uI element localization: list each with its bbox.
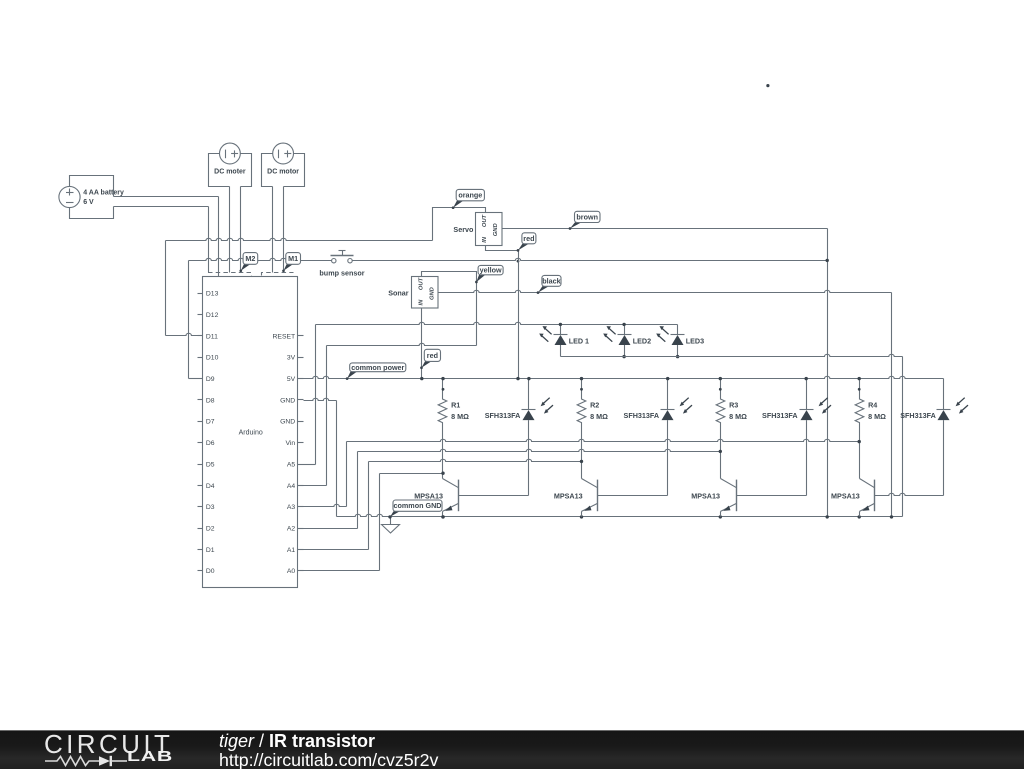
svg-text:common power: common power [351,363,404,372]
svg-text:GND: GND [280,419,295,426]
ground symbol [382,517,400,534]
wire LED return vertical [902,357,904,517]
wire motor2 lead B [283,187,285,273]
pin A2 stub [298,528,304,530]
junction node dot [580,388,583,391]
junction 5V rail [580,377,583,380]
wire GND riser down [336,401,338,517]
svg-text:A3: A3 [287,504,296,511]
wire row C (A1 to R2) [369,459,582,461]
svg-text:orange: orange [458,191,482,200]
photodiode SFH313FA #4 [900,379,968,496]
photodiode SFH313FA #3 [762,379,831,496]
wire A0 to riser [304,570,380,572]
junction black/bottom rail [890,515,893,518]
LED LED 1 [539,325,589,357]
junction 5V rail SFH [666,377,669,380]
flag yellow [475,265,503,283]
pin D7 stub [198,421,203,423]
junction LED1 top [559,323,562,326]
pin GND stub [298,399,304,401]
flag black [537,275,561,294]
pin D3 stub [198,506,203,508]
transistor Q4 MPSA13 [860,479,875,517]
svg-text:SFH313FA: SFH313FA [624,411,660,420]
junction brown/ground wire [826,259,829,262]
junction ground stem [388,515,391,518]
wire to D11 pin [166,333,198,335]
svg-text:RESET: RESET [273,333,296,340]
svg-text:R4: R4 [868,400,877,409]
CircuitLab logo [0,731,260,769]
pin A1 stub [298,549,304,551]
svg-text:A1: A1 [287,547,296,554]
wire A4 riser [326,346,328,486]
pin 3V stub [298,357,304,359]
svg-text:D0: D0 [206,568,215,575]
footer title [219,731,438,771]
junction brown/bottom rail [826,515,829,518]
photodiode SFH313FA #1 [485,379,553,496]
svg-text:M1: M1 [288,254,298,263]
pin Vin stub [298,442,304,444]
junction 5V rail SFH [805,377,808,380]
svg-text:SFH313FA: SFH313FA [900,411,936,420]
svg-text:LED2: LED2 [633,336,651,345]
transistor Q3 MPSA13 [721,479,807,517]
svg-text:SFH313FA: SFH313FA [762,411,798,420]
svg-text:4 AA battery: 4 AA battery [83,189,124,196]
wire orange net riser to D11 [165,241,167,336]
pin D0 stub [198,570,203,572]
pin D4 stub [198,485,203,487]
svg-text:OUT: OUT [482,214,488,227]
junction analog row [441,472,444,475]
wire battery positive lead [70,176,114,197]
motor DC motor (M1) [262,143,305,186]
wire row D (A0 to R1) [380,473,443,475]
svg-text:LED3: LED3 [686,336,704,345]
pin A0 stub [298,570,304,572]
svg-text:D6: D6 [206,440,215,447]
wire A2 riser [357,452,359,529]
junction 5V rail [719,377,722,380]
wire A1 to riser [304,549,369,551]
svg-text:Servo: Servo [453,225,474,234]
junction Q1 emitter [441,515,444,518]
LED LED2 [603,325,651,357]
svg-text:Arduino: Arduino [239,429,263,436]
wire row A (A3 to R4) [347,439,860,441]
junction LED2 top [622,323,625,326]
wire servo IN drop [486,246,519,251]
svg-text:yellow: yellow [480,266,502,275]
flag common GND [389,500,442,518]
svg-text:MPSA13: MPSA13 [691,491,720,500]
svg-text:8 MΩ: 8 MΩ [868,412,886,421]
junction 5V rail SFH [527,377,530,380]
wire A5 riser [315,325,317,465]
junction ground rail [580,515,583,518]
svg-text:D3: D3 [206,504,215,511]
svg-text:Vin: Vin [285,440,295,447]
flag M2 [239,253,257,273]
dashed motor connector right [262,273,294,276]
flag M1 [282,253,300,273]
battery V1 4 AA 6V [59,186,80,207]
svg-text:D12: D12 [206,312,219,319]
svg-text:GND: GND [430,286,436,300]
junction LED3 bottom [676,355,679,358]
junction analog row [580,460,583,463]
svg-text:D1: D1 [206,547,215,554]
resistor R4 8 MOhm [855,379,886,479]
wire battery+ horizontal [114,196,219,198]
pin D12 stub [198,314,203,316]
motor DC moter (M2) [209,143,252,186]
wire 5V rail corner to SFH4 [943,378,945,380]
junction 5V rail [858,377,861,380]
pin D5 stub [198,464,203,466]
wire A4 to yellow net [327,343,477,345]
wire A3 to riser [304,504,347,506]
wire sonar OUT yellow net [422,272,477,346]
junction node dot [442,388,445,391]
flag common power [346,363,406,380]
svg-text:red: red [523,234,534,243]
wire LED bottom rail [561,354,903,356]
pin A5 stub [298,464,304,466]
junction ground rail [441,515,444,518]
wire motor2 lead A [272,187,274,273]
svg-text:DC motor: DC motor [267,168,299,175]
svg-text:brown: brown [576,213,598,222]
svg-text:OUT: OUT [419,277,425,290]
wire motor1 lead B [240,187,242,273]
svg-text:MPSA13: MPSA13 [831,491,860,500]
pin D2 stub [198,528,203,530]
svg-text:8 MΩ: 8 MΩ [729,412,747,421]
resistor R3 8 MOhm [716,379,747,479]
pin D6 stub [198,442,203,444]
svg-text:A5: A5 [287,461,296,468]
wire row B (A2 to R3) [358,449,721,451]
junction under bump [517,260,520,263]
IC Sonar box [412,277,439,309]
IC Arduino box [203,277,298,588]
svg-text:D10: D10 [206,355,219,362]
transistor Q1 MPSA13 [443,479,529,517]
pin A3 stub [298,506,304,508]
flag orange [452,189,485,209]
svg-text:common GND: common GND [394,501,442,510]
svg-text:D5: D5 [206,461,215,468]
wire A4 to riser [304,485,327,487]
junction node dot [719,388,722,391]
junction ground rail [858,515,861,518]
svg-text:LED 1: LED 1 [569,336,589,345]
wire A1 riser [368,462,370,550]
photodiode SFH313FA #2 [624,379,692,496]
wire battery negative lead [70,207,114,219]
svg-text:IN: IN [482,236,488,243]
wire A3 riser [346,442,348,507]
transistor Q2 MPSA13 [582,479,668,517]
junction analog row [719,450,722,453]
svg-text:M2: M2 [245,254,255,263]
wire brown net horizontal [503,228,828,230]
svg-text:R1: R1 [451,400,460,409]
pin GND stub [298,421,304,423]
svg-text:3V: 3V [287,355,296,362]
pin D13 stub [198,293,203,295]
wire GND pin to riser [304,398,337,400]
wire A0 riser [379,474,381,571]
pin D11 stub [198,335,203,337]
wire orange net horizontal [166,238,433,240]
pin D10 stub [198,357,203,359]
wire 5V common power rail [304,376,944,378]
wire ground net riser to D9 [188,261,190,379]
svg-text:D7: D7 [206,419,215,426]
wire common ground bottom rail [337,514,903,516]
svg-text:R2: R2 [590,400,599,409]
svg-text:8 MΩ: 8 MΩ [451,412,469,421]
junction node dot [858,388,861,391]
svg-text:IN: IN [419,299,425,306]
flag red sonar [420,349,440,369]
svg-text:D9: D9 [206,376,215,383]
wire A2 to riser [304,528,358,530]
junction analog row [858,440,861,443]
resistor R1 8 MOhm [438,379,469,479]
wire servo IN riser to 5V rail [518,251,520,379]
svg-text:D13: D13 [206,291,219,298]
junction LED2 bottom [622,355,625,358]
svg-text:R3: R3 [729,400,738,409]
LED LED3 [656,325,704,357]
svg-text:SFH313FA: SFH313FA [485,411,521,420]
svg-text:D11: D11 [206,333,218,340]
wire brown net vertical [827,229,829,517]
wire battery- horizontal [114,206,209,208]
svg-text:D2: D2 [206,525,215,532]
wire black net horizontal (sonar GND) [438,290,892,292]
svg-text:red: red [427,351,438,360]
junction ground rail [719,515,722,518]
pin RESET stub [298,335,304,337]
wire to D9 pin [189,378,198,380]
IC Servo box [476,213,503,246]
svg-text:6 V: 6 V [83,199,94,206]
svg-text:DC moter: DC moter [214,168,246,175]
wire ground net / bump sensor left [189,258,333,260]
pushbutton bump sensor [331,251,354,263]
svg-text:MPSA13: MPSA13 [414,491,443,500]
svg-text:GND: GND [493,223,499,237]
svg-text:5V: 5V [287,376,296,383]
pin 5V stub [298,378,304,380]
svg-text:D4: D4 [206,483,215,490]
flag brown [569,211,600,230]
svg-text:GND: GND [280,397,295,404]
resistor R2 8 MOhm [577,379,608,479]
svg-text:8 MΩ: 8 MΩ [590,412,608,421]
svg-text:black: black [542,276,560,285]
pin D9 stub [198,378,203,380]
wire Q4 base to SFH4 [875,493,944,495]
wire A5 to riser [304,464,316,466]
svg-text:A4: A4 [287,483,296,490]
wire battery+ drop to Arduino [218,197,220,277]
junction 5V rail [441,377,444,380]
svg-text:A0: A0 [287,568,296,575]
stray node dot [766,84,769,87]
wire motor1 lead A [229,187,231,273]
svg-text:A2: A2 [287,525,296,532]
wire battery- drop [208,207,210,273]
dashed motor connector left [208,273,252,276]
wire sonar IN drop to 5V rail [421,309,423,379]
junction 5V rail [516,377,519,380]
svg-text:D8: D8 [206,397,215,404]
wire LED top rail [316,322,678,324]
svg-text:bump sensor: bump sensor [319,268,364,277]
pin D8 stub [198,399,203,401]
wire bump sensor right to brown net [353,258,828,260]
wire black net vertical [891,293,893,517]
junction 5V rail [420,377,423,380]
pin A4 stub [298,485,304,487]
flag red servo [517,233,536,252]
svg-text:Sonar: Sonar [388,289,409,298]
svg-text:MPSA13: MPSA13 [554,491,583,500]
wire orange net to servo [433,208,486,241]
pin D1 stub [198,549,203,551]
